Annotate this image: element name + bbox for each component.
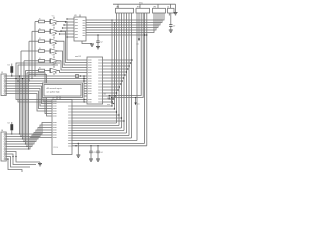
svg-text:R3: R3 — [39, 38, 41, 40]
wire U1 out 9 — [103, 83, 122, 84]
svg-text:R4: R4 — [39, 48, 41, 50]
wire bus corner b — [27, 73, 52, 114]
svg-text:xxx: xxx — [75, 25, 78, 27]
wire bus vert 2 — [20, 51, 21, 137]
resistor R4 — [39, 48, 45, 52]
wire bus corner c — [29, 75, 52, 117]
wire fan vertical 7 — [131, 13, 133, 138]
svg-text:U2: U2 — [52, 98, 54, 100]
wire J6 pin 6 — [6, 135, 51, 147]
svg-text:VCC: VCC — [52, 15, 55, 17]
wire U1 out 14 — [103, 98, 115, 99]
wire U3 out 7 — [86, 34, 147, 35]
wire J6 pin 5 — [6, 133, 51, 145]
svg-text:xxxx: xxxx — [98, 102, 102, 104]
capacitor C3 — [89, 145, 95, 158]
svg-text:All unused inputs: All unused inputs — [47, 87, 62, 90]
wire U3 out 5 — [86, 13, 156, 30]
wire fan vertical 6 — [128, 13, 130, 136]
wire U3 in 4 — [62, 27, 74, 28]
microcontroller U1 — [75, 56, 103, 104]
wire Q6 output — [58, 71, 87, 73]
wire feed row 1 — [34, 22, 35, 77]
wire U3 in 1 — [66, 18, 74, 19]
ground R6 — [76, 155, 80, 157]
svg-text:R1: R1 — [39, 19, 41, 21]
wire fan vertical 1 — [116, 13, 118, 123]
wire bus vert 5 — [25, 71, 26, 145]
svg-text:xxx: xxx — [75, 31, 78, 33]
ground rail end — [174, 4, 178, 15]
svg-text:xxxx: xxxx — [98, 87, 102, 89]
capacitor C4 — [96, 145, 102, 158]
wire J5 pin 3 — [6, 80, 84, 82]
ground U3 — [90, 44, 94, 46]
svg-text:are pulled high: are pulled high — [47, 92, 60, 94]
wire JP2 pin4 to Y1 — [111, 13, 143, 98]
connector JP2 — [136, 7, 150, 13]
ground C2 — [96, 47, 100, 49]
wire U3 out 6 — [86, 13, 154, 33]
wire U2 portA 4 — [72, 114, 120, 115]
wire U1 out 2 — [103, 62, 132, 63]
svg-text:xxxx: xxxx — [68, 115, 72, 117]
svg-text:R6: R6 — [39, 68, 41, 70]
wire bus v18 — [17, 65, 84, 102]
wire VCC drop JP2 — [139, 4, 141, 8]
wire U1 out 15 — [103, 101, 114, 102]
wire fan vertical 5 — [126, 13, 128, 133]
wire U2 portA 6 — [72, 120, 125, 121]
svg-text:xxx: xxx — [75, 37, 78, 39]
svg-text:xxxx: xxxx — [88, 102, 92, 104]
wire J6 pin 1 — [6, 123, 51, 135]
wire U3 gnd stub — [82, 41, 92, 44]
svg-text:xxxx: xxxx — [98, 84, 102, 86]
wire U3 in 5 — [60, 30, 74, 31]
svg-text:R2: R2 — [39, 28, 41, 30]
wire U1 out 5 — [103, 71, 128, 72]
svg-text:xxxx: xxxx — [68, 118, 72, 120]
wire R6 input — [26, 70, 39, 72]
svg-text:xxx: xxx — [75, 22, 78, 24]
svg-text:xxxx: xxxx — [98, 69, 102, 71]
connector J4 — [167, 7, 174, 13]
transistor Q5 — [45, 55, 59, 65]
wire U1 left bus — [83, 75, 87, 102]
svg-text:PIC16: PIC16 — [54, 147, 59, 149]
svg-text:xxxx: xxxx — [98, 75, 102, 77]
wire J6 pin 4 — [6, 130, 51, 142]
resistor R2 — [39, 28, 45, 32]
svg-text:J5: J5 — [1, 72, 3, 74]
svg-text:JP3: JP3 — [153, 7, 156, 9]
svg-text:xxxx: xxxx — [53, 137, 57, 139]
wire R3 input — [29, 40, 39, 42]
svg-text:xxxx: xxxx — [53, 116, 57, 118]
wire U1 out 4 — [103, 68, 129, 69]
svg-text:xxxx: xxxx — [98, 93, 102, 95]
svg-text:D2: D2 — [8, 123, 10, 125]
svg-text:xxx: xxx — [75, 34, 78, 36]
resistor R1 — [39, 19, 45, 23]
wire J6 pin 3 — [6, 128, 51, 140]
wire U3 out 1 — [86, 13, 164, 20]
wire J5 pin 1 — [6, 75, 84, 77]
wire U3 in 7 — [66, 36, 74, 37]
wire U2 portB 7 — [72, 137, 132, 139]
wire VCC drop JP1 — [117, 4, 119, 8]
svg-text:C3: C3 — [93, 152, 95, 154]
wire feed row 3 — [28, 41, 29, 81]
svg-text:xxx: xxx — [104, 94, 107, 96]
resistor R6 — [39, 68, 45, 72]
wire J6 pin 7 — [6, 138, 51, 150]
svg-text:J6: J6 — [1, 130, 3, 132]
wire Q3 output — [58, 41, 87, 65]
svg-text:xxx: xxx — [82, 35, 85, 37]
wire OSC pair vert B — [146, 13, 148, 146]
diode D1 — [8, 64, 13, 77]
svg-text:xxxx: xxxx — [68, 109, 72, 111]
connector J5 — [1, 72, 6, 96]
note box — [43, 83, 83, 98]
svg-text:J4: J4 — [167, 7, 169, 9]
svg-text:VCC: VCC — [52, 35, 55, 37]
svg-text:xxxx: xxxx — [88, 93, 92, 95]
connector J6 — [1, 130, 6, 161]
svg-text:xxxx: xxxx — [98, 96, 102, 98]
wire U3 out 2 — [86, 13, 162, 23]
wire U1 out 12 — [103, 92, 118, 93]
wire U2 portA 5 — [72, 117, 122, 118]
svg-text:xxx U1: xxx U1 — [75, 56, 81, 58]
svg-text:D1: D1 — [8, 65, 10, 67]
wire OSC2 rail — [72, 145, 147, 147]
wire U2 portA 3 — [72, 111, 117, 112]
wire J5 pin 2 — [6, 78, 84, 80]
wire R1 input — [35, 21, 39, 23]
wire Y1 a — [0, 0, 1, 1]
svg-text:C4: C4 — [100, 152, 102, 154]
svg-text:xxxx: xxxx — [68, 146, 72, 148]
svg-text:vss: vss — [136, 44, 139, 46]
wire U1 out 7 — [103, 77, 125, 78]
wire bus vert 4 — [23, 61, 24, 142]
wire U2 portB 1 — [72, 122, 117, 124]
wire U2 portB 6 — [72, 135, 129, 137]
power rail VCC — [113, 2, 176, 4]
wire OSC1 rail — [72, 142, 145, 144]
wire U3 out 3 — [86, 13, 160, 25]
svg-text:VCC: VCC — [52, 25, 55, 27]
svg-text:xxx: xxx — [75, 19, 78, 21]
wire bus vert 6 — [26, 73, 27, 147]
svg-text:xxx: xxx — [75, 28, 78, 30]
wire R5 input — [24, 60, 39, 62]
wire U2 top pins — [57, 97, 60, 100]
ground C3 — [89, 159, 93, 161]
wire U3 in 2 — [65, 21, 74, 22]
wire Q2 output — [58, 31, 87, 62]
wire J5 pin 6 — [6, 89, 51, 107]
wire U2 portB 2 — [72, 125, 119, 127]
wire U2 portB 4 — [72, 130, 124, 132]
svg-text:xxxx: xxxx — [98, 72, 102, 74]
transistor Q4 — [45, 45, 59, 56]
net VSS arrow — [136, 13, 140, 46]
capacitor C2 — [96, 34, 102, 46]
ground C7 — [169, 30, 173, 32]
wire U1 out 1 — [103, 59, 133, 60]
wire Q1 output — [58, 22, 87, 61]
crystal Y1 — [104, 94, 111, 107]
wire bus vert 7 — [28, 75, 29, 150]
transistor Q1 — [45, 15, 59, 26]
resistor R3 — [39, 38, 45, 42]
wire J5 pin 4 — [6, 84, 51, 102]
wire U1 out 8 — [103, 80, 123, 81]
wire U2 portB 8 — [72, 140, 137, 142]
resistor RN1 — [76, 75, 82, 78]
svg-text:vss: vss — [137, 104, 140, 106]
ground C4 — [96, 159, 100, 161]
wire J6 pin 10 — [6, 156, 30, 167]
wire J6 pin 8 — [6, 152, 40, 163]
wire U2 portA 1 — [72, 105, 113, 106]
wire bus v16 — [15, 63, 84, 100]
svg-text:U3: U3 — [74, 15, 76, 17]
svg-text:xxxx: xxxx — [68, 112, 72, 114]
wire U1 out 13 — [103, 95, 116, 96]
wire OSC pair vert A — [144, 13, 146, 143]
wire U3 out 4 — [86, 13, 158, 28]
wire Q4 output — [58, 51, 87, 68]
wire U2 portB 3 — [72, 127, 122, 129]
wire Y1 top — [109, 96, 115, 100]
wire U3 in 3 — [63, 24, 74, 25]
wire Y1 b — [112, 98, 115, 105]
ground tail — [38, 162, 42, 166]
wire U1 out 6 — [103, 74, 126, 75]
svg-text:xxxx: xxxx — [88, 72, 92, 74]
wire J6 pin 9 — [6, 154, 36, 165]
wire bus v112 — [111, 19, 112, 106]
svg-text:xxxx: xxxx — [98, 66, 102, 68]
wire J5 pin 7 — [6, 91, 51, 109]
svg-text:xxxx: xxxx — [98, 78, 102, 80]
svg-text:VCC: VCC — [52, 45, 55, 47]
wire fan vertical 2 — [118, 13, 120, 126]
svg-text:xxxx: xxxx — [98, 90, 102, 92]
wire fan vertical 4 — [123, 13, 125, 131]
wire VCC drop JP3 — [157, 4, 159, 8]
wire bus vert 1 — [19, 75, 20, 134]
svg-text:xxxx: xxxx — [98, 60, 102, 62]
wire R2 input — [32, 30, 39, 32]
wire J4 pin 1 — [168, 13, 170, 16]
wire J5 pin 5 — [6, 86, 51, 104]
wire U1 out 10 — [103, 86, 121, 87]
wire JP2 pin3 to Y1 — [109, 13, 142, 96]
resistor R5 — [39, 58, 45, 62]
svg-text:R5: R5 — [39, 58, 41, 60]
svg-text:xxxx: xxxx — [68, 140, 72, 142]
wire U1 out 11 — [103, 89, 119, 90]
transistor Q3 — [45, 35, 59, 46]
wire bus vert 3 — [22, 78, 23, 140]
capacitor C7 — [169, 13, 175, 30]
svg-text:JP1: JP1 — [116, 7, 119, 9]
wire fan vertical 8 — [136, 13, 138, 141]
svg-text:xxxx: xxxx — [98, 81, 102, 83]
connector JP1 — [116, 7, 134, 13]
diode D2 — [8, 122, 13, 135]
wire J5 pin 8 — [6, 94, 51, 112]
svg-text:xxxx: xxxx — [98, 99, 102, 101]
svg-text:C2: C2 — [100, 42, 102, 44]
transistor Q2 — [45, 25, 59, 36]
wire U1 out 3 — [103, 65, 130, 66]
wire feed row 2 — [31, 31, 32, 79]
wire Q5 output — [58, 61, 87, 70]
svg-text:xxxx: xxxx — [68, 106, 72, 108]
connector JP3 — [153, 7, 166, 13]
wire U2 portB 5 — [72, 132, 127, 134]
buffer IC U3 — [74, 15, 86, 42]
microcontroller U2 — [52, 98, 72, 155]
wire VCC drop J4 — [170, 4, 172, 8]
wire U2 portA 2 — [72, 108, 115, 109]
wire R6 drop — [75, 143, 79, 155]
svg-text:VCC: VCC — [52, 55, 55, 57]
wire fan vertical 3 — [121, 13, 123, 128]
svg-text:xx x: xx x — [107, 104, 110, 106]
wire J6 pin 2 — [6, 125, 51, 137]
svg-text:JP2: JP2 — [137, 7, 140, 9]
svg-text:C7: C7 — [173, 25, 175, 27]
net VSS arrow 2 — [134, 97, 139, 106]
wire U3 in 6 — [59, 33, 74, 34]
wire J6 pin 11 — [6, 158, 22, 172]
wire R4 input — [21, 50, 39, 52]
transistor Q6 — [45, 64, 59, 75]
svg-text:xxxx: xxxx — [98, 63, 102, 65]
wire bus v114 — [114, 22, 115, 109]
svg-text:VCC: VCC — [139, 2, 144, 4]
